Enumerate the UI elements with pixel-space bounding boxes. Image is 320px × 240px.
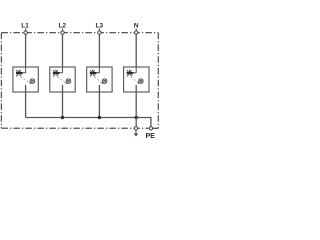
SPD module 2 wire exit (62, 85, 64, 92)
wire N down to module 4 (135, 34, 137, 67)
earth terminal node (134, 127, 137, 130)
SPD module 1 wire exit (25, 85, 27, 92)
SPD module 3 linkage arrow to indicator (94, 77, 103, 85)
SPD module 2 disconnector symbol (53, 70, 63, 77)
SPD module 4 disconnector symbol (127, 70, 137, 77)
SPD module 1 box (13, 67, 38, 92)
wire module 1 down to PE bus (25, 92, 27, 118)
SPD module 4 linkage arrow to indicator (131, 77, 140, 85)
earth arrow (134, 130, 139, 136)
SPD module 1 wire entry stub (25, 67, 27, 73)
terminal stub L1 (25, 29, 27, 32)
device boundary top edge (dash-dot) (1, 32, 158, 34)
SPD module 2 status indicator (66, 78, 71, 83)
junction L2 bus (61, 116, 64, 119)
terminal N (135, 31, 138, 34)
SPD module 1 status indicator (30, 78, 35, 83)
svg-text:PE: PE (145, 131, 155, 140)
terminal L2 (61, 31, 64, 34)
SPD module 2 wire entry stub (62, 67, 64, 73)
wire module 4 down to PE bus (135, 92, 137, 118)
SPD module 4 wire exit (135, 85, 137, 92)
SPD module 3 box (87, 67, 112, 92)
SPD module 3 wire entry stub (98, 67, 100, 73)
SPD module 2 linkage arrow to indicator (58, 77, 68, 85)
device boundary bottom edge (dash-dot) (1, 127, 158, 129)
SPD module 3 status indicator (102, 78, 107, 83)
terminal L3 (98, 31, 101, 34)
SPD module 4 wire entry stub (135, 67, 137, 73)
SPD module 3 wire exit (98, 85, 100, 92)
wire PE node to boundary corner (153, 127, 159, 129)
device boundary left edge (dash-dot) (0, 33, 2, 129)
SPD module 1 disconnector symbol (16, 70, 26, 77)
terminal stub L2 (62, 29, 64, 32)
terminal stub N (135, 29, 137, 32)
junction N bus (135, 116, 138, 119)
wire module 2 down to PE bus (62, 92, 64, 118)
terminal stub L3 (98, 29, 100, 32)
device boundary right edge (dash-dot) (157, 33, 159, 129)
SPD module 3 disconnector symbol (90, 70, 100, 77)
junction L3 bus (98, 116, 101, 119)
PE terminal node (149, 127, 152, 130)
wire L3 down to module 3 (98, 34, 100, 67)
wire L1 down to module 1 (25, 34, 27, 67)
SPD module 4 box (124, 67, 149, 92)
SPD module 1 linkage arrow to indicator (21, 77, 32, 85)
terminal L1 (24, 31, 27, 34)
wire junction down to earth terminal (135, 118, 137, 129)
wire module 3 down to PE bus (98, 92, 100, 118)
SPD module 2 box (50, 67, 75, 92)
PE bus wire (26, 118, 151, 128)
wire L2 down to module 2 (62, 34, 64, 67)
SPD module 4 status indicator (138, 78, 143, 83)
